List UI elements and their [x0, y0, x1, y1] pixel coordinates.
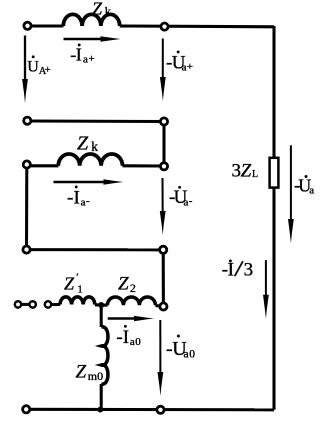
wire top right segment: [120, 24, 274, 28]
wire terminal link c1-c2: [18, 303, 33, 306]
terminal circle c3: [45, 301, 51, 307]
wire neg-seq right segment: [123, 164, 165, 167]
svg-text:+: +: [89, 53, 95, 65]
impedance box 3ZL: [270, 158, 279, 188]
wire right vertical lower: [272, 188, 275, 410]
wire top left segment: [28, 24, 64, 27]
voltage arrow UA+: [22, 36, 28, 104]
wire bottom of neg-seq: [27, 248, 164, 251]
wire link right to zero-seq: [162, 250, 165, 307]
svg-text:′: ′: [76, 271, 78, 283]
svg-text:a: a: [83, 54, 88, 66]
label -I/3 with dot: [222, 259, 253, 280]
svg-text:-: -: [67, 187, 73, 208]
voltage arrow -Ua (far right): [288, 145, 294, 243]
svg-text:Z: Z: [77, 133, 89, 155]
label -Ua (far right) with dot: [294, 175, 314, 196]
label Z'1: [64, 271, 83, 295]
svg-text:Z: Z: [241, 160, 252, 181]
wire (mid short between seq networks): [27, 119, 164, 123]
wire coil to junction to Z2: [95, 303, 108, 306]
svg-text:Z: Z: [64, 274, 75, 294]
label -Ia0 with dot: [116, 325, 141, 348]
label Z2: [118, 273, 136, 294]
junction dot bottom: [97, 407, 103, 413]
inductor Zk (positive-seq): [63, 14, 119, 26]
node bottom-right: [157, 406, 164, 413]
svg-text:I: I: [228, 260, 234, 281]
terminal circle c1: [15, 301, 21, 307]
inductor Z'1: [60, 297, 95, 305]
label -Ua+ with dot: [166, 50, 193, 73]
svg-text:a: a: [130, 336, 135, 348]
inductor Z2: [107, 297, 155, 305]
node neg-seq-right: [160, 163, 167, 170]
wire Zm0 upper lead: [100, 305, 103, 327]
wire neg-seq left segment: [27, 164, 59, 167]
node top-left: [24, 22, 31, 29]
svg-text:-: -: [189, 195, 193, 207]
junction dot (T of Zm0): [98, 302, 104, 308]
wire Z2 to node: [155, 306, 163, 307]
wire left vertical (neg-seq): [25, 166, 28, 250]
terminal circle c2: [30, 301, 36, 307]
voltage arrow -Ua-: [160, 178, 166, 235]
label Zk (positive-seq): [92, 0, 112, 18]
svg-text:a: a: [184, 349, 189, 361]
svg-text:k: k: [91, 139, 98, 154]
svg-text:2: 2: [130, 281, 136, 295]
svg-text:L: L: [252, 169, 258, 180]
svg-text:0: 0: [135, 336, 141, 348]
wire link right: [162, 122, 165, 167]
svg-text:a: a: [309, 184, 314, 196]
svg-text:1: 1: [77, 284, 83, 296]
node top-right: [161, 23, 168, 30]
label -Ia+ with dot: [70, 43, 94, 65]
label UA+ with dot: [27, 55, 51, 77]
label Zk (negative-seq): [77, 133, 98, 155]
inductor Zm0 (vertical): [101, 327, 108, 384]
current arrow -Ia0: [108, 316, 154, 321]
svg-text:+: +: [187, 61, 193, 73]
node bottom-left: [23, 406, 30, 413]
node zero-seq-right: [160, 303, 167, 310]
svg-text:a: a: [184, 196, 189, 208]
svg-text:I: I: [123, 327, 129, 348]
wire c3 to coil: [48, 303, 60, 306]
label -Ia- with dot: [67, 185, 90, 208]
svg-text:-: -: [116, 327, 122, 348]
node neg-bot-left: [23, 246, 30, 253]
label 3ZL: [232, 160, 259, 181]
svg-text:k: k: [105, 4, 112, 18]
node mid-left: [24, 117, 31, 124]
wire bottom: [26, 408, 274, 412]
svg-text:m0: m0: [88, 369, 103, 383]
svg-text:3: 3: [232, 160, 242, 181]
label -Ua- with dot: [169, 186, 193, 209]
svg-text:a: a: [81, 197, 86, 209]
svg-text:-: -: [86, 195, 90, 207]
current arrow -Ia+: [64, 36, 121, 41]
node neg-seq-left: [23, 161, 30, 168]
current arrow -Ia-: [54, 179, 124, 184]
svg-text:Z: Z: [92, 0, 103, 18]
svg-text:I: I: [74, 187, 80, 208]
svg-text:3: 3: [244, 260, 254, 281]
svg-text:U: U: [27, 58, 39, 75]
voltage arrow -Ua+: [160, 39, 166, 102]
svg-text:Z: Z: [118, 273, 129, 294]
wire Zm0 lower lead: [100, 384, 103, 410]
svg-text:I: I: [76, 45, 82, 65]
node mid-right: [160, 118, 167, 125]
node neg-bot-right: [160, 246, 167, 253]
svg-text:Z: Z: [76, 362, 87, 383]
voltage arrow -Ua0: [158, 320, 164, 396]
wire right vertical upper: [272, 26, 275, 158]
svg-text:+: +: [45, 65, 51, 76]
current arrow -I/3: [263, 260, 269, 319]
label -Ua0 with dot: [166, 335, 195, 361]
inductor Zk (negative-seq): [58, 154, 122, 166]
svg-text:0: 0: [189, 349, 195, 361]
label Zm0: [76, 362, 104, 384]
